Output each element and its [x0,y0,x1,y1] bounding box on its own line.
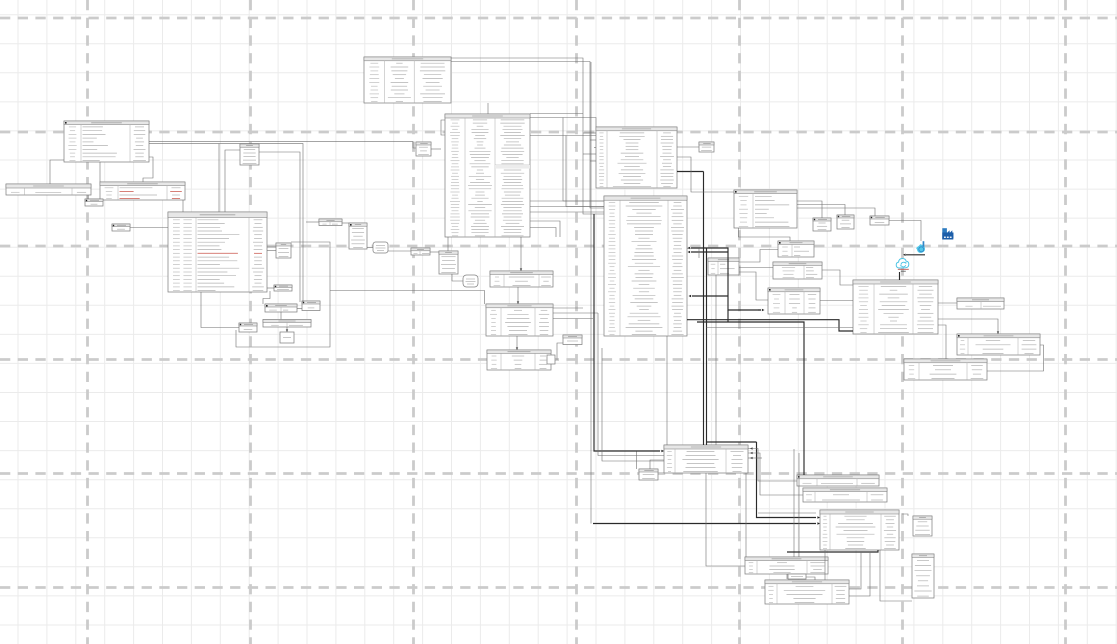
wire Ttop->T3 a [451,58,604,214]
wire SC1->frame loop [236,242,330,347]
table SB3 [870,216,889,225]
table FB [957,298,1004,309]
table Tright [853,280,938,334]
wire Tright->FB [938,302,957,304]
wire Tright->R2 [938,325,946,359]
wire T2 left stub3 [594,147,596,149]
wire gray into BC1 c [602,348,664,461]
wire FB2->VT1 [342,222,349,224]
wire dark into BR3 [593,522,820,524]
wire BR3->SR1 [902,514,908,516]
wire T4->T5 [517,287,519,304]
icon factory (blue) [942,228,953,239]
table SBb [112,224,130,231]
wire TL2 bottom->B2b [201,292,239,328]
wire dark h y442 [707,441,757,443]
table FB2 [319,219,342,226]
wire Tbig1 stub f [530,228,556,238]
table M1 [778,241,814,257]
wire BC1->BR1 [748,447,797,481]
wire T5->T6 [516,336,518,350]
wire T2 left stub4 [583,153,596,155]
table SB2 [837,215,854,229]
wire TR1->M1 v [739,228,791,241]
wire T3->TR1 [677,157,734,192]
wire BR3->BR5 v [824,550,826,580]
wire RB1->FB3 [388,250,411,252]
wire ML1 bottom->TL2 [182,200,184,212]
table SD1 [439,251,458,274]
table CL1 (cloud note) [463,275,478,287]
wire T5 stub a [553,307,583,309]
table SR1 [913,516,932,536]
wire Tbig1->T2 c [530,118,596,128]
wire Tbig1->SD1 [447,237,449,251]
wire T6->SE1 [557,343,563,360]
wire R1->R2 loop [987,345,1044,371]
table RB1 (rounded note) [373,242,388,253]
wire pump->cloud [903,254,925,256]
wire frame->T5 [330,291,485,305]
table VT1 [349,223,367,249]
wire SC2->B1 [263,291,270,304]
table BC1 [664,445,748,473]
table T5 [486,304,553,336]
wire W1->SBa [87,195,89,199]
table TN1 [708,258,739,275]
table T2 [596,127,677,188]
table TL2 [168,212,267,292]
wire T5 stub b [553,312,598,314]
table T6b (sliver box) [547,355,555,364]
table R1 [957,334,1040,355]
wire BR2 v down b [798,453,800,557]
wire ST1->B1b [259,152,300,302]
wire BR4->LBL [786,574,788,579]
wire TN1->M1 [739,250,778,263]
wire FB3->SD1 [430,251,439,253]
wire B2->B3 [286,327,288,332]
icon cloud-sync (cyan) [896,259,909,272]
wire T3 arrow y296 [689,295,729,297]
wire SBx->Tbig1 [431,148,441,150]
wire Tbig1->T4 [520,237,522,271]
table TL1 [64,121,149,162]
wire dark y322 h [697,322,804,475]
wire B1->B2 [280,312,282,320]
table T4 [490,271,553,287]
wire Tbig1 stub e [530,221,560,237]
wire BR5 right up b [849,552,870,596]
wire dark y319 to Tright [687,320,853,331]
table SC1 [276,243,291,258]
wire T3 bottom->BC1 [666,336,668,445]
table B1 [265,304,297,312]
wire BR5 right up a [849,552,861,589]
wire BC1->BR2 [748,452,803,495]
wire dark v x594->BC1 [594,214,664,452]
table SE1 (small box) [563,335,582,345]
wire B1->B1b [297,308,302,310]
wire dark y322 v [727,310,729,322]
wire Ttop->Tbig1 [487,103,489,114]
table W1 [6,184,91,195]
table BR1 [797,475,879,486]
wire branch to TL2 top [218,144,220,212]
table Tbig1 [445,114,530,237]
wire T2 left stub2 [590,139,596,141]
wire TR1->SB3 [797,208,875,216]
wire M3 arrow [758,309,765,311]
table ST1 [240,144,259,165]
wire Tright->R1 [938,319,999,334]
wire SBc->BC1 [650,460,664,469]
wire BR1 v down a [793,449,795,557]
wire BC1 stub r [748,457,762,459]
wire Tbig1 v x566 [566,136,604,207]
table TR1 [734,190,797,228]
wire T3 dark stub b [688,251,729,253]
wire SBc top v [636,452,638,470]
wire Tbig1->T3 c [530,211,604,213]
wire dark h y552 [787,550,878,552]
wire SBb->TL2 [130,227,168,229]
wire TL1 long lower [149,144,303,302]
wire BR3 bottom->SR2 [880,550,912,601]
table SR2 [912,554,934,598]
wire BC1->BR4 [745,473,747,557]
wire Tbig1->T3 a [530,200,604,202]
table T6 [487,350,551,370]
wire long vertical x591 [590,62,592,524]
table BR3 [820,510,899,550]
wire T2 left stub1 [583,132,596,134]
wire LBL->BR5 [806,577,815,580]
table T3 [604,196,687,336]
wire TL2->SC2 [267,287,274,289]
table SB1 [813,218,831,231]
table SBx [416,142,431,156]
table B2b [239,323,257,332]
wire Tbig1 v x563 [563,118,604,202]
table FB3 [411,248,430,255]
wire T2->SBtop [677,146,699,148]
table M2 [773,262,822,279]
wire T2 dark h [677,171,704,173]
wire T3->TN1 area [687,249,699,259]
wire TN1->M2 [739,267,773,269]
wire SB3->pump [889,221,921,242]
table R2 [904,359,987,380]
wire TL2->SC1 b [267,250,276,252]
wire TR1->SB2 [797,205,845,216]
table B3 (note box) [280,332,294,343]
table M3 [768,288,820,314]
wire M3->Tright [820,300,853,302]
wire dark v x756 [757,442,821,519]
wire TL1->W1 [50,160,64,184]
wire TL1 bottom->ML1 [99,162,101,182]
wire TN1->M3 [739,272,768,300]
wire BR3 gray in [758,512,816,514]
wire M2->Tright [822,270,853,285]
wire TL2->SC1 a [267,246,276,248]
table BR4 [745,557,828,574]
wire TR1->SB1 [797,201,822,218]
wire gray y327 to Tright [707,327,854,329]
table SC2 [274,285,292,291]
wire Tbig1->right a [530,113,583,115]
table ML1 [100,182,185,200]
table Ttop [364,57,451,103]
table BR5 [765,580,849,604]
wire BC1->BR4 b [706,473,745,566]
wire Tbig1->T3 b [530,206,604,208]
table SBa [85,199,103,206]
table LBL (connector label) [788,574,806,579]
wire Tbig1->T2 d [530,135,596,137]
table SBc [639,469,658,480]
table B1b [302,301,320,311]
wire cloud->Tright [899,272,901,280]
wire TN1 v x716 [715,275,717,445]
wire T3 dark elbow [688,247,762,310]
wire TL1->SBx upper [149,142,416,148]
wire Tbig1 bracket [441,120,445,135]
wire ST1->TL2 [225,150,240,212]
table SBtop [699,142,714,152]
wire dark v x703 [703,172,705,446]
table BR2 [803,488,887,502]
wire SD1->CL1 [452,274,463,281]
icon pump (cyan) [916,241,925,253]
wire Ttop->T2 b [451,62,604,209]
wire VT1->RB1 [367,247,373,249]
wire dark v x706 [706,248,708,445]
wire T2 left stub5 [590,160,596,162]
wire T5 stub c [553,318,593,320]
wire TL1->ML1 [143,157,153,182]
wire into FB2 [306,221,319,223]
table B2 [263,320,311,328]
wire gray into BC1 b [598,313,664,456]
